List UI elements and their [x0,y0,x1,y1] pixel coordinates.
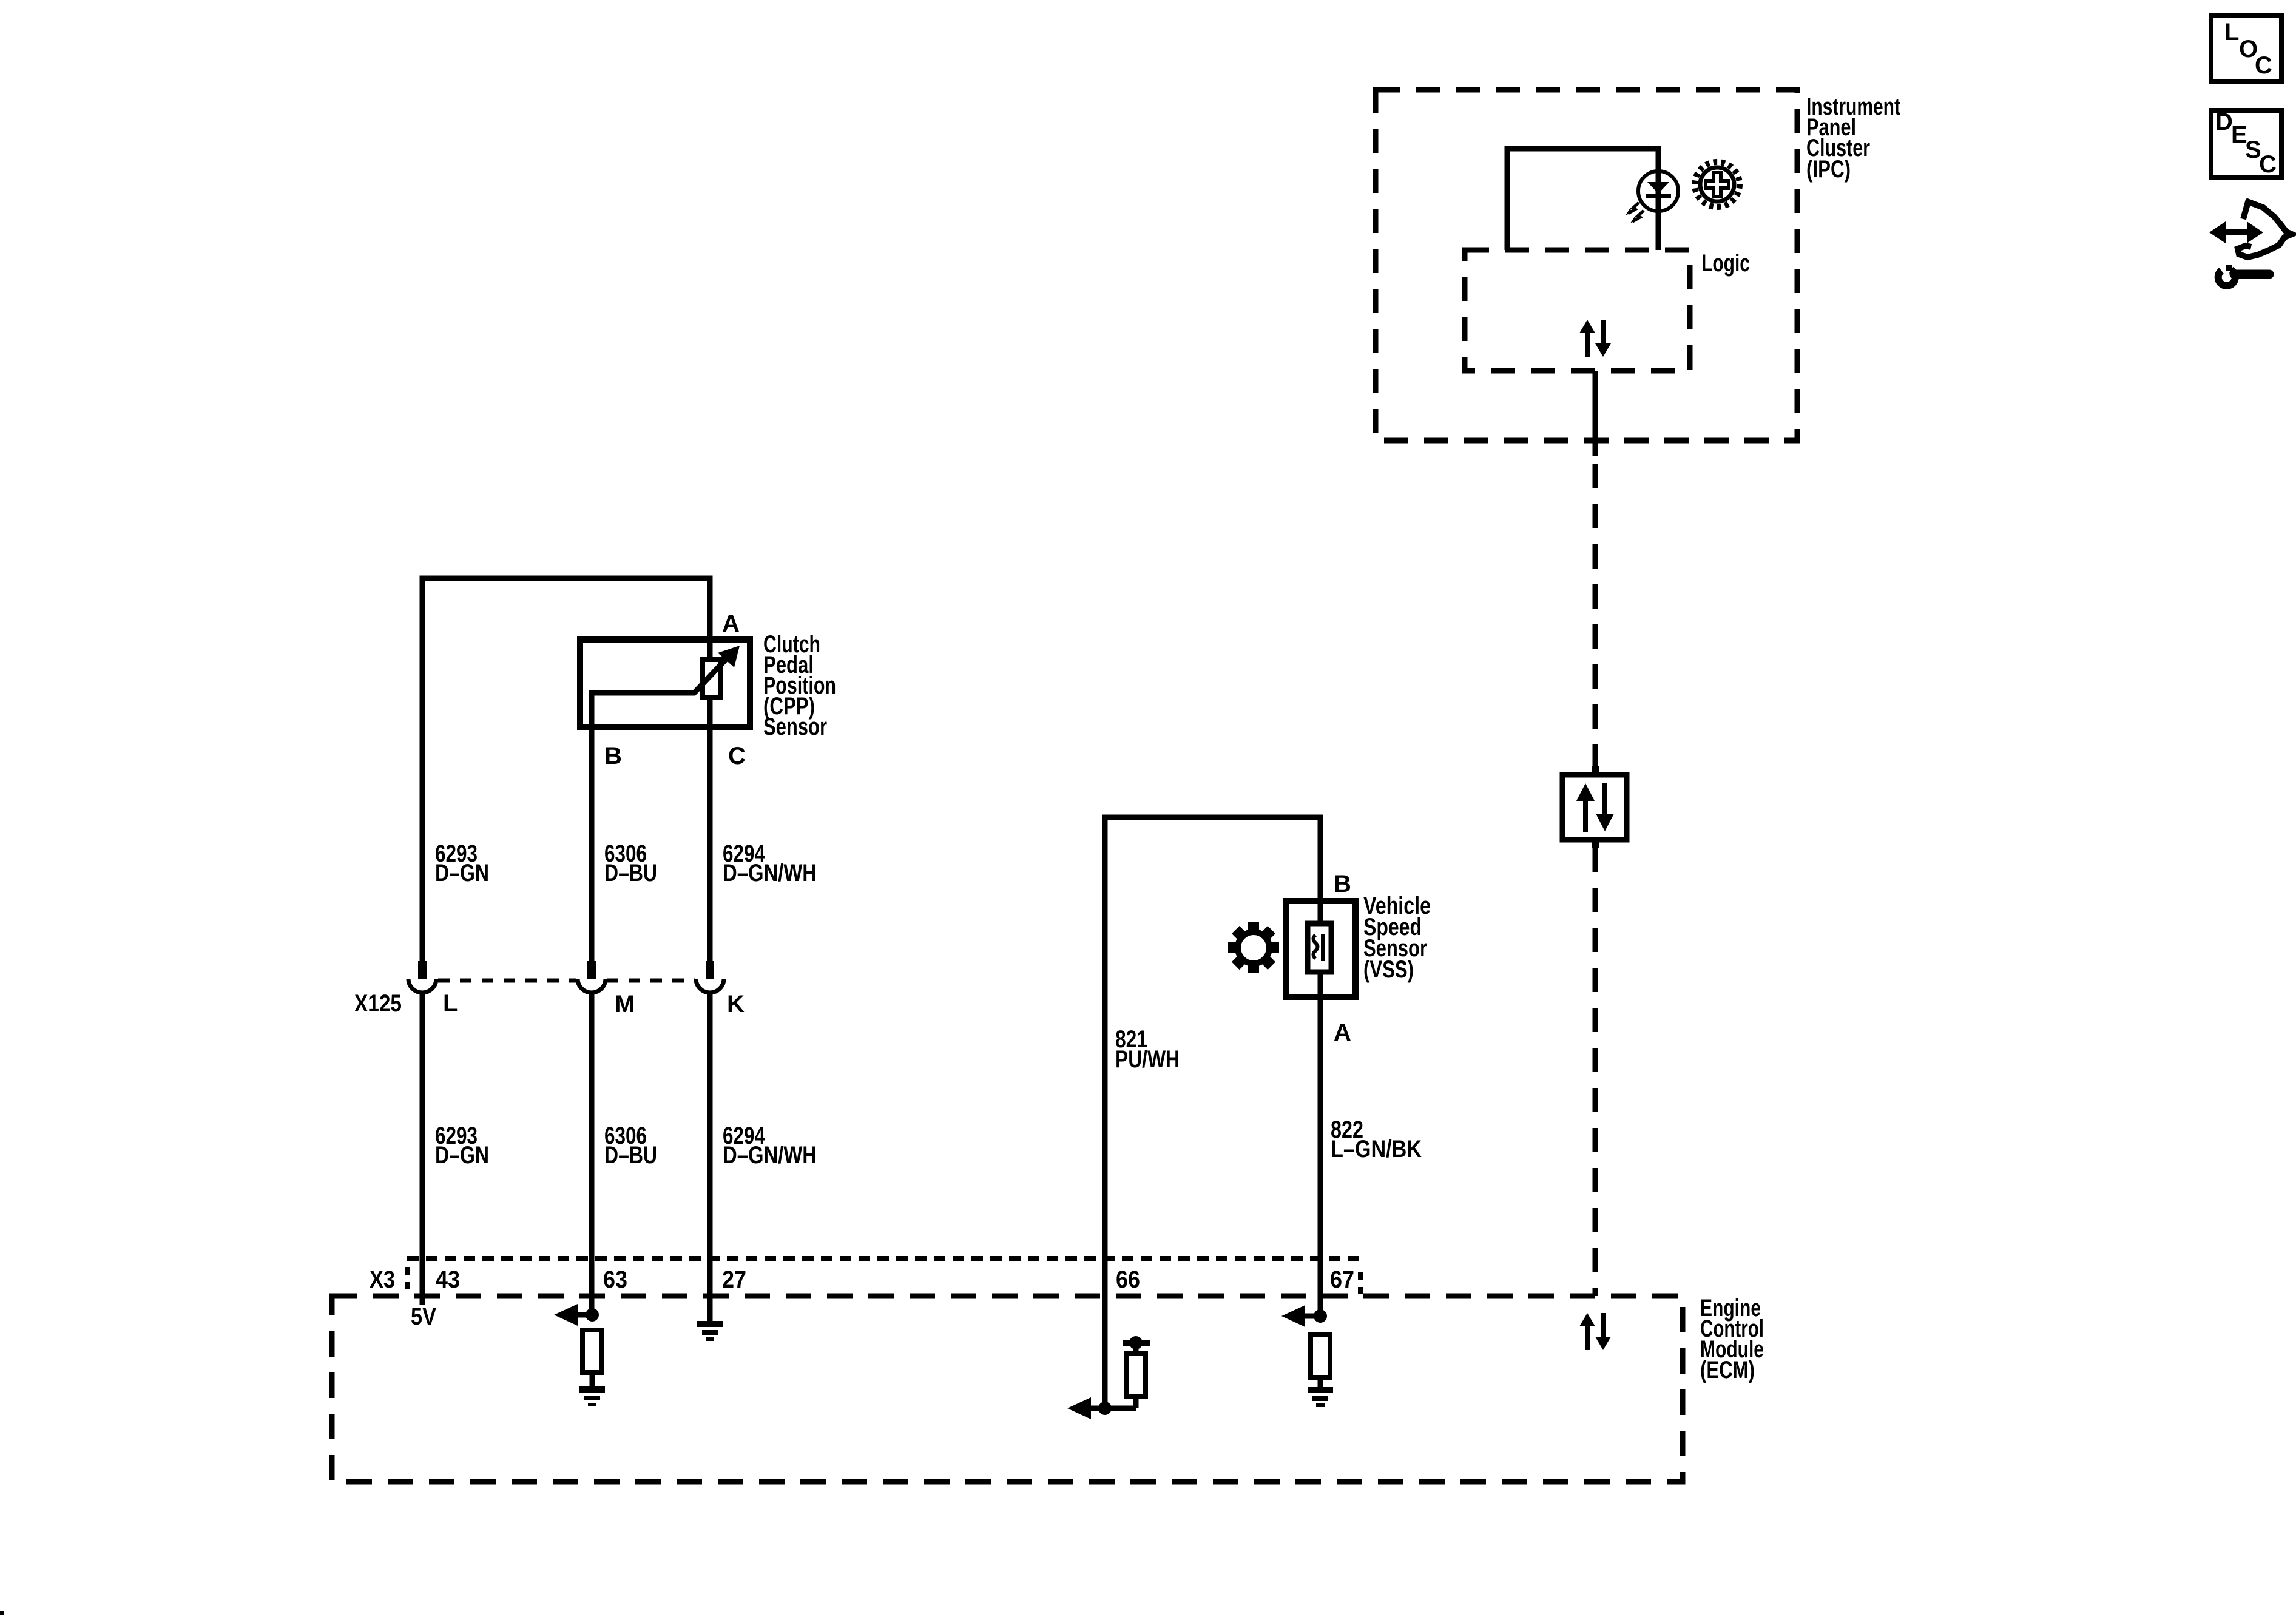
svg-text:A: A [722,610,740,637]
wire pin 66 into ECM [1102,1296,1108,1408]
wiper arrowhead [718,646,740,667]
svg-text:67: 67 [1330,1266,1354,1293]
wire serial data dashed upper segment [1593,464,1598,766]
logic block dashed box [1465,250,1690,371]
svg-text:43: 43 [436,1266,460,1293]
svg-text:C: C [728,743,746,769]
resistor (ECM pull-down at pin 67) [1311,1335,1330,1377]
wire 821 PU/WH loop from ECM pin 66 to VSS pin B [1105,817,1320,1408]
label Engine Control Module (ECM) [1700,1295,1764,1383]
VSS sensor box [1286,901,1356,997]
wire IPC lamp loop [1507,149,1658,250]
ground (pin 63 pull-down) [579,1386,605,1406]
svg-text:D–GN/WH: D–GN/WH [723,860,817,886]
resistor (ECM pull-up at pin 66) [1126,1354,1146,1396]
wire stub above serial data box [1592,766,1599,776]
logic serial-data up/down arrows [1579,320,1611,357]
connector X3 left end tick [405,1267,410,1289]
gear icon (reluctor wheel) [1218,912,1290,984]
connector X125 pin L [408,961,436,993]
wire label 6306 D-BU (lower) [604,1122,657,1169]
wire CPP pin C down from potentiometer [707,698,713,961]
connector X3 dotted line [407,1256,1360,1261]
wire label 6294 D-GN/WH (upper) [723,840,817,886]
wire resistor to ground (pin 67) [1318,1377,1323,1387]
label Vehicle Speed Sensor (VSS) [1363,893,1431,983]
wire 6293 D-GN lower segment to ECM pin 43 [420,992,425,1305]
svg-text:D–GN: D–GN [435,860,489,886]
svg-text:Sensor: Sensor [763,714,827,740]
connector X125 dashed tie line [438,979,695,983]
signal arrow at pin 66 [1067,1397,1136,1419]
wire label 6306 D-BU (upper) [604,840,657,886]
ground (pin 67 pull-down) [1308,1387,1333,1407]
svg-text:D–GN: D–GN [435,1142,489,1169]
serial data box up/down arrows [1576,783,1614,832]
CPP sensor box [580,640,750,727]
supply rail bar (pin 66 pull-up) [1123,1340,1150,1346]
junction node on supply rail [1129,1336,1143,1349]
resistor (ECM pull-down at pin 63) [582,1330,602,1372]
module box Engine Control Module (ECM) [332,1296,1683,1482]
module box Instrument Panel Cluster (IPC) [1376,90,1797,441]
wire resistor to supply rail (pin 66) [1133,1343,1139,1354]
svg-text:63: 63 [603,1266,627,1293]
wire VSS pin A out of sensor element [1318,972,1323,1316]
wire label 821 PU/WH [1115,1026,1180,1073]
ECM serial-data up/down arrows [1579,1313,1611,1350]
wire 6306 D-BU lower segment to ECM pin 63 [589,992,595,1315]
svg-text:L: L [2224,19,2239,46]
signal arrow at pin 63 [554,1304,592,1326]
label Instrument Panel Cluster (IPC) [1806,93,1900,183]
page margin dot [0,1611,4,1615]
svg-text:D: D [2215,109,2233,135]
svg-text:5V: 5V [411,1303,436,1330]
svg-text:M: M [615,991,635,1018]
svg-text:L–GN/BK: L–GN/BK [1331,1136,1422,1163]
junction node pin 67 [1314,1309,1327,1323]
junction node pin 66 [1098,1402,1112,1415]
wire potentiometer wiper to pin B [592,660,726,961]
svg-text:K: K [727,991,745,1018]
wire resistor to ground (pin 63) [590,1372,595,1386]
junction node pin 63 [586,1308,599,1322]
legend DESC box [2211,109,2281,178]
svg-text:D–BU: D–BU [604,860,657,886]
wire junction to pull-up resistor (pin 66) [1133,1396,1139,1408]
svg-text:C: C [2259,151,2277,178]
svg-text:B: B [1334,871,1351,897]
svg-text:27: 27 [722,1266,746,1293]
wire serial data (solid below logic box) [1593,371,1598,456]
serial data communication box [1562,775,1627,840]
svg-text:Logic: Logic [1701,250,1750,277]
connector X125 pin M [578,961,606,993]
svg-text:D–BU: D–BU [604,1142,657,1169]
label Clutch Pedal Position (CPP) Sensor [763,631,836,740]
signal arrow at pin 67 [1281,1305,1320,1327]
svg-text:(VSS): (VSS) [1363,956,1414,983]
legend connector-view tool icon [2209,200,2292,286]
connector X125 pin K [696,961,724,993]
wire 6294 D-GN/WH lower segment to ECM pin 27 [707,992,713,1321]
legend LOC box [2211,16,2281,81]
svg-text:X125: X125 [354,990,402,1017]
gear icon (shift indicator symbol) [1695,162,1740,207]
wire pin 67 into ECM [1318,1296,1323,1316]
wire serial data dashed lower segment [1593,848,1598,1296]
wire label 6293 D-GN (lower) [435,1122,489,1169]
wire VSS pin B into sensor element [1318,899,1323,923]
wire 5V feed loop to CPP pin A [422,578,710,961]
svg-text:L: L [443,990,458,1017]
wire label 822 L-GN/BK [1331,1116,1422,1163]
svg-text:A: A [1334,1019,1351,1046]
potentiometer element (CPP) [703,660,720,698]
svg-text:B: B [604,743,622,769]
svg-text:C: C [2255,52,2272,79]
LED light-emission arrows [1626,203,1644,223]
svg-text:66: 66 [1116,1266,1140,1293]
wire label 6293 D-GN (upper) [435,840,489,886]
wire label 6294 D-GN/WH (lower) [723,1122,817,1169]
VSS pickup sensor element [1308,923,1331,972]
indicator lamp LED (upshift indicator) [1638,171,1678,211]
connector X3 right end tick [1358,1272,1363,1294]
svg-text:PU/WH: PU/WH [1115,1046,1180,1073]
wire stub below serial data box [1592,840,1599,848]
svg-text:X3: X3 [370,1266,395,1293]
svg-text:(ECM): (ECM) [1700,1357,1755,1383]
svg-text:(IPC): (IPC) [1806,156,1851,183]
svg-text:D–GN/WH: D–GN/WH [723,1142,817,1169]
ground (pin 27) [697,1321,723,1341]
